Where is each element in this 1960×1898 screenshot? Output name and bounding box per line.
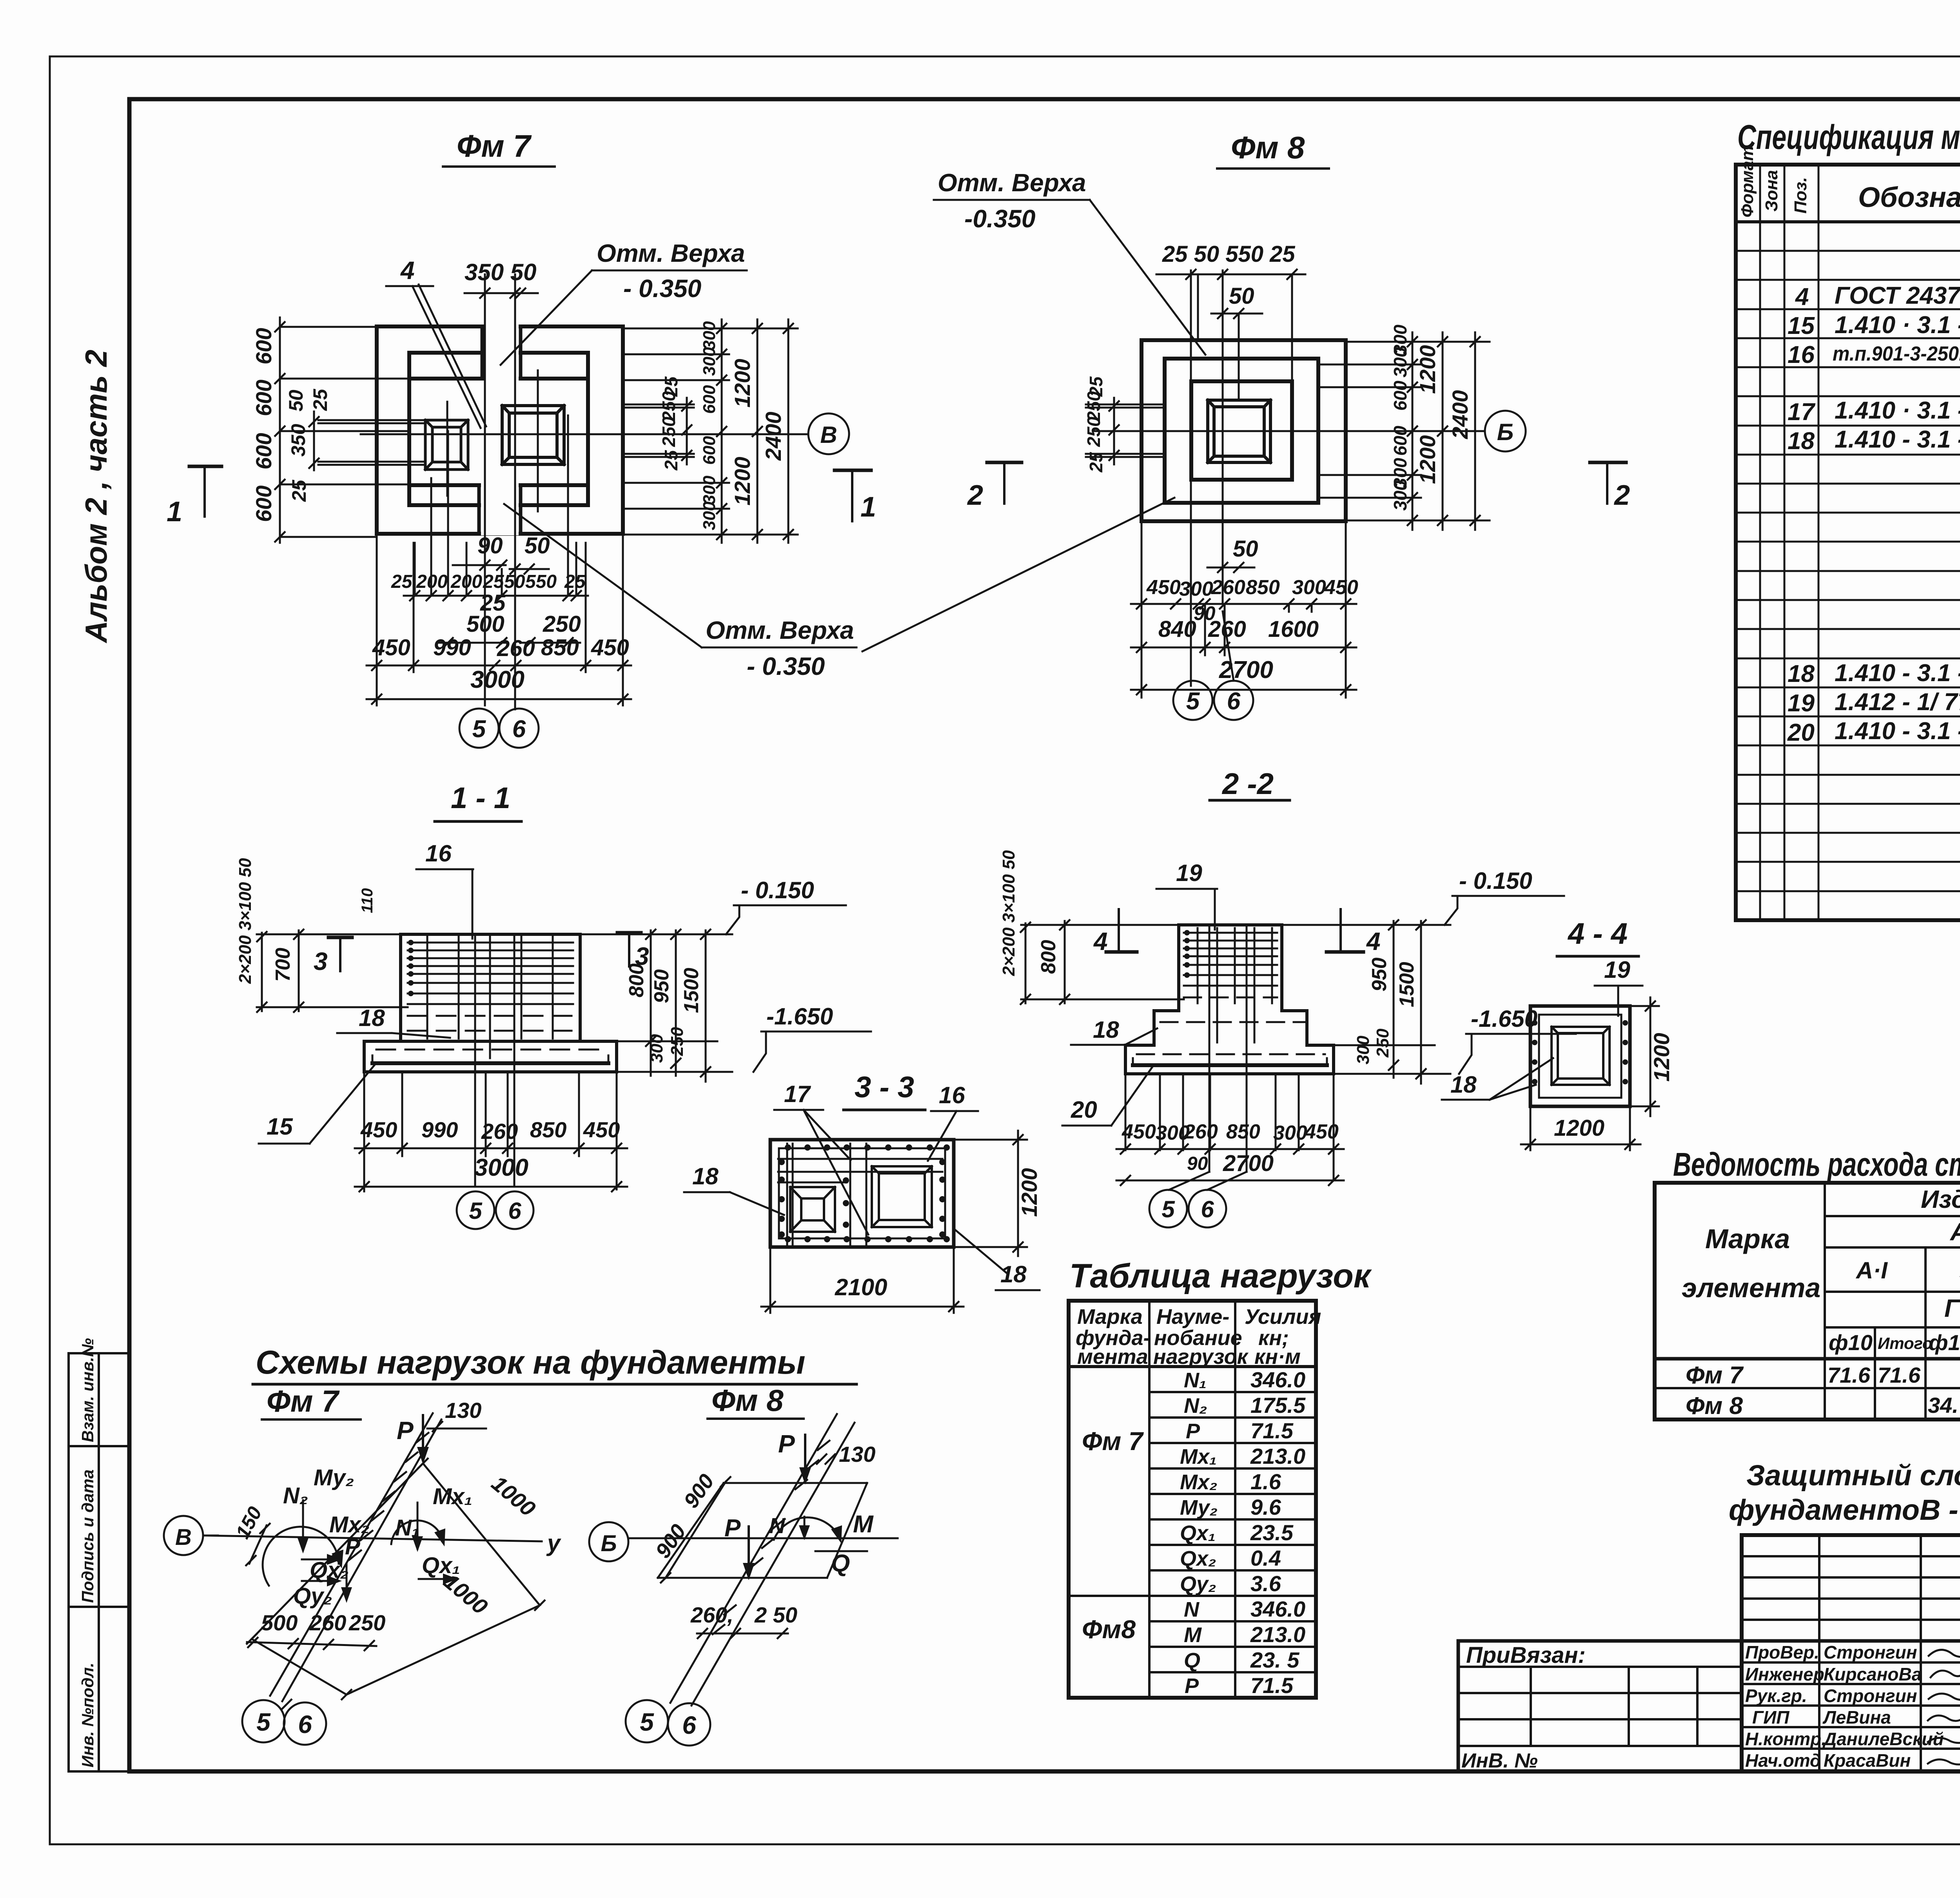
- Фм8 scheme: axis strip: [670, 1414, 855, 1706]
- svg-text:1200: 1200: [1649, 1033, 1674, 1082]
- svg-text:25 50 550 25: 25 50 550 25: [1162, 241, 1295, 267]
- svg-text:18: 18: [1000, 1261, 1027, 1287]
- svg-text:1.410 - 3.1 - 02: 1.410 - 3.1 - 02: [1835, 426, 1960, 453]
- svg-text:260: 260: [481, 1119, 518, 1144]
- svg-text:5: 5: [640, 1708, 654, 1736]
- svg-text:Фм8: Фм8: [1082, 1615, 1136, 1644]
- Фм8 column plate: [1208, 400, 1270, 462]
- svg-text:800: 800: [625, 963, 648, 997]
- svg-text:Зона: Зона: [1762, 170, 1781, 212]
- section 2-2 bottom chains: [1125, 1074, 1334, 1180]
- Фм7 centrelines: [361, 274, 808, 709]
- svg-text:850: 850: [1226, 1120, 1260, 1143]
- Фм7 footing outer step (plan): [377, 326, 623, 534]
- svg-text:Фм 7: Фм 7: [267, 1384, 340, 1418]
- svg-text:15: 15: [267, 1113, 293, 1140]
- section mark 2 (right): [1590, 461, 1626, 464]
- section 2-2 bottom mesh (pos 20): [1133, 1063, 1327, 1067]
- section 2-2 right dims: [1282, 925, 1450, 1074]
- svg-text:фундаментоВ - 35мм, для оста: фундаментоВ - 35мм, для остальной - 25мм…: [1729, 1494, 1960, 1526]
- svg-text:Б: Б: [601, 1531, 617, 1556]
- section 3-3 perimeter rebar dots: [779, 1144, 950, 1242]
- svg-text:P: P: [778, 1430, 795, 1458]
- section 3-3 left anchor box: [790, 1187, 835, 1232]
- svg-text:600: 600: [251, 328, 276, 364]
- svg-text:2700: 2700: [1219, 656, 1273, 683]
- svg-text:А·I: А·I: [1855, 1257, 1888, 1283]
- svg-text:1500: 1500: [680, 968, 703, 1013]
- svg-text:Фм 8: Фм 8: [711, 1383, 784, 1418]
- svg-text:2×200 3×100 50: 2×200 3×100 50: [999, 850, 1018, 976]
- svg-text:25: 25: [661, 450, 681, 471]
- svg-text:90: 90: [1187, 1153, 1208, 1174]
- svg-text:5: 5: [469, 1198, 483, 1224]
- Фм8 left small chain 25 250 250 25: [1086, 398, 1165, 464]
- section mark 1 (left): [189, 465, 221, 468]
- svg-text:6: 6: [1227, 688, 1241, 715]
- section 2-2 axis circles: [1149, 1190, 1187, 1227]
- svg-text:Отм. Верха: Отм. Верха: [938, 169, 1086, 197]
- svg-text:ГОСТ 24379.1 · 80: ГОСТ 24379.1 · 80: [1835, 282, 1960, 309]
- section 2-2 axes verticals: [1169, 925, 1247, 1190]
- svg-text:50: 50: [1233, 536, 1258, 562]
- section 1-1 right dims: [580, 934, 732, 1072]
- svg-text:Отм. Верха: Отм. Верха: [706, 616, 854, 644]
- svg-text:2×200 3×100 50: 2×200 3×100 50: [236, 858, 255, 984]
- svg-text:2 -2: 2 -2: [1221, 767, 1274, 801]
- svg-text:300: 300: [1292, 576, 1326, 599]
- section 1-1 horizontal rebars (pos 16): [408, 943, 573, 1004]
- svg-text:850: 850: [530, 1117, 566, 1142]
- signatures: [1928, 1649, 1960, 1764]
- svg-text:Инженер: Инженер: [1745, 1664, 1824, 1684]
- svg-text:19: 19: [1604, 957, 1630, 983]
- svg-text:Подпись и дата: Подпись и дата: [78, 1470, 97, 1603]
- svg-text:ГОСТ 5781- 82: ГОСТ 5781- 82: [1944, 1294, 1960, 1322]
- svg-text:260: 260: [309, 1610, 346, 1635]
- svg-text:Формат: Формат: [1738, 145, 1757, 218]
- svg-text:23.5: 23.5: [1250, 1520, 1294, 1545]
- svg-text:Поз.: Поз.: [1791, 177, 1810, 214]
- svg-text:2100: 2100: [835, 1274, 887, 1300]
- svg-text:1200: 1200: [1415, 345, 1440, 394]
- svg-text:Стронгин: Стронгин: [1824, 1686, 1917, 1706]
- svg-text:КирсаноВа: КирсаноВа: [1824, 1664, 1922, 1684]
- svg-text:1.410 · 3.1 -12: 1.410 · 3.1 -12: [1835, 312, 1960, 339]
- svg-text:Му₂: Му₂: [314, 1465, 354, 1490]
- svg-text:Итого: Итого: [1878, 1334, 1933, 1352]
- svg-text:71.6: 71.6: [1828, 1363, 1871, 1387]
- Фм8 axis circles 5 6: [1223, 611, 1234, 681]
- svg-text:- 0.150: - 0.150: [1459, 868, 1532, 894]
- svg-text:2700: 2700: [1223, 1151, 1274, 1176]
- section 1-1 stirrups: [427, 937, 553, 1058]
- svg-text:19: 19: [1176, 860, 1202, 886]
- svg-text:25: 25: [564, 571, 586, 592]
- svg-text:1: 1: [860, 491, 876, 523]
- svg-text:3000: 3000: [470, 666, 524, 693]
- svg-text:300: 300: [1273, 1122, 1307, 1144]
- svg-text:260,: 260,: [690, 1603, 733, 1627]
- section 2-2 outline: [1125, 925, 1334, 1074]
- Фм8 right chains: [1412, 332, 1414, 530]
- svg-text:Изделия арматурные: Изделия арматурные: [1921, 1185, 1960, 1213]
- svg-text:25: 25: [391, 571, 413, 592]
- svg-text:71.5: 71.5: [1250, 1673, 1294, 1698]
- svg-text:50: 50: [504, 571, 525, 592]
- svg-text:950: 950: [1368, 957, 1391, 992]
- svg-text:1200: 1200: [1017, 1168, 1042, 1217]
- svg-text:Qу₂: Qу₂: [1180, 1572, 1216, 1596]
- svg-text:250: 250: [668, 1027, 687, 1056]
- Фм7 top slot: [484, 323, 519, 376]
- Фм7 axis circles 5 6: [459, 709, 499, 748]
- svg-text:25: 25: [309, 388, 331, 411]
- svg-text:P: P: [724, 1515, 741, 1542]
- svg-text:Фм 8: Фм 8: [1231, 130, 1305, 165]
- svg-text:1: 1: [167, 496, 182, 528]
- Фм7 scheme axis circles 5 6: [242, 1700, 285, 1742]
- svg-text:Q: Q: [831, 1550, 850, 1577]
- svg-text:у: у: [546, 1530, 561, 1556]
- svg-text:-0.350: -0.350: [964, 205, 1035, 233]
- svg-text:600: 600: [1390, 381, 1410, 411]
- svg-text:850: 850: [541, 635, 579, 660]
- Фм8 footing steps (plan): [1142, 340, 1346, 521]
- svg-text:5: 5: [1161, 1196, 1175, 1222]
- svg-text:250: 250: [1083, 417, 1104, 447]
- svg-text:600: 600: [700, 436, 719, 465]
- svg-text:15: 15: [1788, 312, 1815, 339]
- Фм7 scheme: Mx1 arc: [391, 1521, 443, 1544]
- section 3-3 dims: [770, 1140, 1027, 1313]
- svg-text:6: 6: [298, 1710, 312, 1738]
- Фм7 right extension lines: [623, 328, 798, 535]
- svg-text:1200: 1200: [1554, 1115, 1604, 1141]
- svg-text:600: 600: [700, 385, 719, 414]
- svg-text:600: 600: [251, 433, 276, 470]
- svg-text:346.0: 346.0: [1250, 1597, 1305, 1621]
- svg-text:Защитный слой бетона для: Защитный слой бетона для арматуры подошВ…: [1746, 1459, 1960, 1492]
- svg-text:ПриВязан:: ПриВязан:: [1466, 1642, 1586, 1668]
- Фм7 anchor plate right: [502, 406, 564, 464]
- svg-text:1.412 - 1/ 77- В.3.040: 1.412 - 1/ 77- В.3.040: [1835, 689, 1960, 716]
- Фм8 centreline: [1094, 430, 1484, 432]
- svg-text:450: 450: [1146, 576, 1181, 599]
- section 4-4 dots: [1532, 1020, 1628, 1084]
- svg-text:В: В: [175, 1525, 192, 1550]
- svg-text:550: 550: [525, 571, 557, 592]
- svg-text:300: 300: [700, 501, 719, 530]
- svg-text:50: 50: [524, 533, 550, 558]
- section 3-3 right anchor box: [872, 1166, 932, 1227]
- Фм7 scheme: Qx2 arrow: [302, 1580, 338, 1582]
- Фм7 left small chain 25 350 50: [314, 412, 425, 470]
- section mark 1 (right): [835, 469, 871, 472]
- Фм7 left dim chain 600x4: [280, 317, 409, 543]
- section 1-1 axes verticals: [475, 934, 514, 1187]
- svg-text:200: 200: [450, 571, 482, 592]
- svg-text:800: 800: [1037, 940, 1060, 974]
- svg-text:М: М: [1184, 1623, 1202, 1647]
- svg-text:Спецификация монолитных фундам: Спецификация монолитных фундаментоВ Фм7;…: [1737, 118, 1960, 156]
- svg-text:Фм 7: Фм 7: [1082, 1427, 1144, 1456]
- svg-text:Мх₁: Мх₁: [433, 1484, 472, 1509]
- svg-text:КрасаВин: КрасаВин: [1824, 1750, 1911, 1771]
- svg-text:Стронгин: Стронгин: [1824, 1642, 1917, 1662]
- section 2-2 rebars: [1184, 933, 1277, 986]
- section 1-1 anchor bolts dashed: [376, 1016, 606, 1050]
- svg-text:450: 450: [372, 635, 410, 660]
- section 1-1 bottom mesh (pos 15): [372, 1061, 608, 1065]
- svg-text:Qу₂: Qу₂: [293, 1583, 332, 1609]
- svg-text:Фм 7: Фм 7: [1686, 1362, 1744, 1389]
- svg-text:600: 600: [251, 486, 276, 522]
- svg-text:450: 450: [360, 1117, 397, 1142]
- svg-text:3000: 3000: [474, 1154, 528, 1181]
- svg-text:300: 300: [700, 347, 719, 376]
- svg-text:1.410 - 3.1 - 02: 1.410 - 3.1 - 02: [1835, 660, 1960, 687]
- svg-text:1200: 1200: [730, 359, 755, 408]
- svg-text:ИнВ. №: ИнВ. №: [1461, 1749, 1538, 1772]
- svg-text:600: 600: [1390, 426, 1410, 456]
- svg-text:т.п.901-3-250.88 КЖН72.0.0.0: т.п.901-3-250.88 КЖН72.0.0.0: [1833, 343, 1960, 365]
- svg-text:213.0: 213.0: [1250, 1622, 1305, 1647]
- svg-text:300: 300: [700, 475, 719, 504]
- svg-text:Обозначение: Обозначение: [1858, 182, 1960, 213]
- section 3-3 top bars (pos 17): [778, 1158, 942, 1160]
- Фм7 scheme: Qx1 arrow: [419, 1578, 454, 1580]
- svg-text:17: 17: [1788, 399, 1815, 426]
- Фм7 bottom slot: [481, 488, 519, 535]
- svg-text:300: 300: [1354, 1035, 1373, 1064]
- svg-text:Рук.гр.: Рук.гр.: [1745, 1686, 1807, 1706]
- svg-text:6: 6: [512, 716, 526, 743]
- svg-text:18: 18: [1788, 428, 1815, 455]
- svg-text:4: 4: [1366, 927, 1381, 955]
- svg-text:5: 5: [1186, 688, 1200, 715]
- svg-text:Арматура класса: Арматура класса: [1949, 1218, 1960, 1246]
- svg-text:Ведомость расхода стали на оди: Ведомость расхода стали на один элемент,…: [1673, 1146, 1960, 1183]
- svg-text:500: 500: [261, 1610, 298, 1635]
- svg-text:2400: 2400: [1448, 390, 1472, 439]
- section 3-3 vertical bars: [786, 1144, 788, 1245]
- Фм8 scheme axis circles 5 6: [626, 1700, 668, 1742]
- svg-text:250: 250: [348, 1610, 385, 1635]
- svg-text:130: 130: [839, 1442, 875, 1467]
- svg-text:260: 260: [1183, 1120, 1218, 1143]
- svg-text:Усилия: Усилия: [1245, 1305, 1321, 1329]
- svg-text:18: 18: [1788, 660, 1815, 687]
- svg-text:Мх₂: Мх₂: [1180, 1470, 1218, 1494]
- svg-text:Q: Q: [1184, 1649, 1200, 1672]
- svg-text:16: 16: [1788, 341, 1815, 368]
- svg-text:350 50: 350 50: [465, 259, 537, 285]
- section mark 2 (left): [987, 461, 1022, 464]
- svg-text:2400: 2400: [761, 412, 786, 461]
- Фм7 right chain 1200/1200: [757, 319, 759, 543]
- svg-text:мента: мента: [1077, 1345, 1148, 1369]
- svg-text:600: 600: [251, 380, 276, 416]
- Фм7 scheme: axis B circle: [164, 1516, 203, 1555]
- svg-text:213.0: 213.0: [1250, 1444, 1305, 1468]
- svg-text:50: 50: [285, 390, 307, 412]
- svg-text:элемента: элемента: [1682, 1273, 1820, 1303]
- svg-text:2: 2: [1613, 480, 1630, 511]
- svg-text:ПроВер.: ПроВер.: [1745, 1642, 1819, 1662]
- svg-text:Нач.отд: Нач.отд: [1745, 1750, 1821, 1771]
- svg-text:Н.контр.: Н.контр.: [1745, 1729, 1826, 1749]
- svg-text:450: 450: [1324, 576, 1358, 599]
- svg-text:4: 4: [1093, 927, 1108, 955]
- svg-text:300: 300: [1179, 578, 1213, 600]
- svg-text:1200: 1200: [730, 457, 755, 506]
- svg-text:16: 16: [425, 840, 452, 867]
- svg-text:Инв. №подл.: Инв. №подл.: [78, 1663, 97, 1767]
- axis B circle: [808, 413, 849, 454]
- svg-text:840: 840: [1158, 616, 1196, 642]
- svg-text:- 0.350: - 0.350: [747, 652, 825, 680]
- svg-text:Р: Р: [1186, 1419, 1200, 1443]
- svg-text:1600: 1600: [1268, 616, 1319, 642]
- axis Б circle: [1485, 411, 1526, 451]
- svg-text:250: 250: [543, 611, 581, 637]
- svg-text:Му₂: Му₂: [1180, 1496, 1218, 1519]
- svg-text:Мх₁: Мх₁: [1180, 1445, 1217, 1468]
- section 4-4 body: [1530, 1006, 1630, 1106]
- Фм7 right chain 2400: [788, 319, 789, 543]
- svg-text:25: 25: [483, 571, 505, 592]
- svg-text:500: 500: [466, 611, 505, 637]
- svg-text:18: 18: [692, 1163, 719, 1189]
- svg-text:ДанилеВский: ДанилеВский: [1822, 1729, 1944, 1749]
- svg-text:нагрузок: нагрузок: [1153, 1345, 1249, 1369]
- left margin stamp table: [69, 1353, 129, 1771]
- svg-text:25: 25: [288, 479, 310, 502]
- svg-text:Б: Б: [1497, 419, 1514, 445]
- svg-text:18: 18: [359, 1005, 385, 1031]
- Фм7 scheme: axis strip: [270, 1413, 441, 1701]
- svg-text:450: 450: [1304, 1120, 1339, 1143]
- svg-text:Марка: Марка: [1077, 1305, 1143, 1329]
- Фм7 scheme: P mid arrow: [302, 1559, 338, 1561]
- svg-text:Науме-: Науме-: [1156, 1305, 1229, 1329]
- svg-text:3 - 3: 3 - 3: [855, 1071, 914, 1104]
- svg-text:346.0: 346.0: [1250, 1367, 1305, 1392]
- Фм8 joint strip verticals: [1191, 270, 1223, 686]
- svg-text:- 0.150: - 0.150: [741, 877, 814, 903]
- svg-text:P: P: [397, 1416, 414, 1445]
- Фм7 right chain 300/300/600/600/300/300: [721, 319, 723, 543]
- svg-text:700: 700: [272, 948, 294, 982]
- svg-text:1500: 1500: [1396, 962, 1418, 1007]
- specification table grid: [1736, 165, 1960, 920]
- svg-text:N₂: N₂: [1184, 1394, 1207, 1418]
- svg-text:1.410 - 3.1 - 17: 1.410 - 3.1 - 17: [1835, 718, 1960, 745]
- section 1-1 outline: [364, 934, 617, 1072]
- svg-text:450: 450: [583, 1117, 620, 1142]
- section 1-1 bottom chains: [364, 1072, 617, 1189]
- svg-text:19: 19: [1788, 690, 1815, 717]
- svg-text:18: 18: [1093, 1017, 1119, 1043]
- svg-text:18: 18: [1450, 1071, 1477, 1098]
- svg-text:4: 4: [1795, 283, 1809, 310]
- section 4-4 dims: [1530, 1006, 1659, 1150]
- svg-text:6: 6: [508, 1198, 521, 1224]
- svg-text:17: 17: [784, 1081, 811, 1107]
- svg-text:ф10: ф10: [1929, 1330, 1960, 1355]
- svg-text:175.5: 175.5: [1250, 1393, 1306, 1418]
- steel consumption table grid: [1655, 1183, 1960, 1419]
- section 2-2 marks 4: [1106, 950, 1137, 954]
- svg-text:250: 250: [659, 417, 679, 447]
- loads table grid: [1069, 1301, 1316, 1698]
- svg-text:1.6: 1.6: [1250, 1469, 1281, 1494]
- Фм7 scheme: N1 arrow: [417, 1503, 419, 1549]
- svg-text:Qх₂: Qх₂: [1180, 1547, 1216, 1570]
- svg-text:4: 4: [400, 256, 415, 285]
- svg-text:M: M: [853, 1511, 874, 1538]
- svg-text:ГИП: ГИП: [1752, 1707, 1789, 1728]
- Фм8 scheme: plate: [658, 1483, 867, 1578]
- svg-text:300: 300: [700, 321, 719, 350]
- svg-text:ф10: ф10: [1829, 1330, 1873, 1355]
- svg-text:Отм. Верха: Отм. Верха: [597, 239, 745, 267]
- svg-text:260: 260: [497, 636, 535, 661]
- section 4-4 anchor box: [1552, 1027, 1610, 1085]
- svg-text:Qх₂: Qх₂: [310, 1557, 349, 1583]
- svg-text:5: 5: [472, 716, 486, 743]
- svg-text:6: 6: [682, 1711, 696, 1739]
- svg-text:950: 950: [650, 969, 673, 1003]
- Фм7 scheme: N2 arrow: [302, 1500, 304, 1550]
- svg-text:6: 6: [1201, 1196, 1214, 1222]
- section 1-1 axis circles: [457, 1191, 494, 1229]
- svg-text:1200: 1200: [1415, 435, 1440, 484]
- svg-text:-1.650: -1.650: [766, 1003, 833, 1030]
- svg-text:В: В: [820, 422, 837, 448]
- svg-text:2: 2: [967, 480, 983, 511]
- svg-text:50: 50: [1229, 283, 1254, 309]
- svg-text:Qх₁: Qх₁: [1180, 1521, 1216, 1545]
- section 1-1 marks 3: [328, 936, 352, 939]
- svg-text:300: 300: [1390, 347, 1410, 377]
- svg-text:Фм 7: Фм 7: [457, 129, 532, 163]
- svg-text:кн·м: кн·м: [1254, 1345, 1301, 1369]
- svg-text:450: 450: [1122, 1120, 1156, 1143]
- svg-text:71.5: 71.5: [1250, 1418, 1294, 1443]
- svg-text:34. 2: 34. 2: [1928, 1393, 1960, 1418]
- Фм7 right small chain 25 250 250 25: [623, 398, 694, 464]
- svg-text:1 - 1: 1 - 1: [451, 781, 510, 815]
- Фм8 leader to bottom-left (long diagonal): [862, 498, 1174, 651]
- svg-text:ЛеВина: ЛеВина: [1822, 1707, 1891, 1728]
- Фм8 scheme: moment arc M: [774, 1517, 840, 1540]
- svg-text:2 50: 2 50: [754, 1603, 797, 1627]
- svg-text:16: 16: [939, 1082, 965, 1108]
- svg-text:Альбом 2 , часть 2: Альбом 2 , часть 2: [79, 350, 113, 644]
- svg-text:N₂: N₂: [283, 1483, 308, 1508]
- svg-text:Таблица нагрузок: Таблица нагрузок: [1069, 1257, 1372, 1295]
- svg-text:0.4: 0.4: [1250, 1546, 1281, 1570]
- svg-text:- 0.350: - 0.350: [623, 274, 701, 303]
- svg-text:-1.650: -1.650: [1471, 1006, 1537, 1032]
- svg-text:3: 3: [314, 947, 328, 975]
- svg-text:20: 20: [1071, 1097, 1097, 1123]
- svg-text:25: 25: [1086, 451, 1106, 473]
- svg-text:23. 5: 23. 5: [1250, 1648, 1299, 1672]
- svg-text:990: 990: [433, 635, 471, 660]
